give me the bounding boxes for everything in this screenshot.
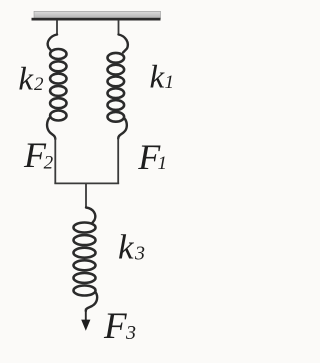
spring K2 entry hook bbox=[48, 35, 57, 51]
spring K1 coil loop 1 bbox=[108, 53, 125, 63]
spring K1 coil loop 3 bbox=[108, 77, 125, 87]
spring K1 exit hook bbox=[118, 118, 127, 139]
svg-text:F: F bbox=[103, 306, 127, 347]
spring K1 top wire bbox=[118, 20, 120, 35]
spring K3 coil loop 6 bbox=[74, 286, 96, 296]
svg-text:1: 1 bbox=[158, 153, 168, 174]
spring K1 coil loop 5 bbox=[108, 100, 125, 110]
svg-text:2: 2 bbox=[34, 74, 44, 95]
spring K2 bottom wire bbox=[54, 138, 56, 184]
svg-text:k: k bbox=[18, 62, 34, 98]
spring K2 coil loop 3 bbox=[50, 74, 66, 84]
ceiling bottom edge bbox=[32, 18, 161, 21]
force F3 arrow shaft bbox=[85, 309, 87, 322]
spring K2 coil loop 5 bbox=[50, 98, 66, 108]
spring K2 coil loop 4 bbox=[50, 86, 66, 96]
spring K1 coil loop 2 bbox=[108, 65, 125, 75]
spring K3 entry hook bbox=[86, 208, 95, 225]
spring K2 coil loop 6 bbox=[50, 111, 66, 121]
spring K1 bottom wire bbox=[117, 138, 119, 185]
spring K3 coil loop 2 bbox=[74, 235, 96, 245]
force F3 arrowhead bbox=[81, 320, 90, 331]
svg-text:3: 3 bbox=[134, 243, 145, 265]
junction bar bbox=[54, 182, 119, 184]
svg-text:k: k bbox=[118, 228, 135, 267]
svg-text:k: k bbox=[150, 59, 166, 95]
svg-text:3: 3 bbox=[125, 322, 136, 344]
spring K1 coil loop 6 bbox=[108, 112, 125, 122]
spring K2 coil loop 1 bbox=[50, 49, 66, 59]
spring K3 coil loop 1 bbox=[74, 223, 96, 233]
spring K3 coil loop 4 bbox=[74, 260, 96, 270]
spring K1 coil loop 4 bbox=[108, 88, 125, 98]
center stem wire bbox=[85, 184, 87, 208]
svg-text:2: 2 bbox=[44, 153, 54, 174]
spring K3 exit hook bbox=[86, 292, 97, 311]
spring K3 coil loop 3 bbox=[74, 248, 96, 258]
spring K2 top wire bbox=[56, 20, 58, 35]
spring K2 coil loop 2 bbox=[50, 61, 66, 71]
spring K3 coil loop 5 bbox=[74, 273, 96, 283]
ceiling support bar bbox=[34, 11, 161, 18]
svg-text:1: 1 bbox=[165, 72, 175, 93]
spring K1 entry hook bbox=[119, 35, 128, 53]
spring K2 exit hook bbox=[47, 117, 55, 139]
